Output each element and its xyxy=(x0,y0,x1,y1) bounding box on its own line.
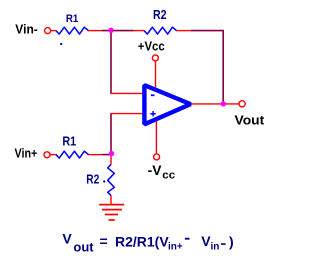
svg-text:+Vcc: +Vcc xyxy=(138,40,165,54)
wire op-amp output to Vout terminal xyxy=(190,103,239,105)
node A junction dot xyxy=(108,28,113,33)
wire inverting input stub xyxy=(110,92,143,94)
wire Vin- terminal to R1 xyxy=(51,30,57,32)
wire node B down to R2 vertical xyxy=(110,155,112,165)
wire node B up to non-inverting input xyxy=(110,114,112,154)
resistor R1 (bottom, Vin+ branch) xyxy=(56,151,88,158)
terminal Vout xyxy=(239,101,245,107)
svg-text:R1: R1 xyxy=(62,134,76,148)
terminal Vin+ xyxy=(44,152,50,158)
wire R2 right lead xyxy=(176,30,191,32)
svg-text:R2/R1(V: R2/R1(V xyxy=(115,233,169,249)
output node junction dot xyxy=(221,101,226,106)
svg-text:in+: in+ xyxy=(168,242,183,253)
wire op-amp bottom to -Vcc xyxy=(155,118,157,154)
grid dot 2 xyxy=(103,180,105,182)
svg-text:Vin+: Vin+ xyxy=(15,145,38,160)
resistor R2 (top feedback) xyxy=(144,27,176,34)
svg-text:V: V xyxy=(62,231,72,247)
svg-text:out: out xyxy=(73,240,94,255)
svg-text:): ) xyxy=(229,233,234,249)
wire node A horizontal (junction to R2) xyxy=(102,30,134,32)
resistor R1 (top, Vin- branch) xyxy=(56,27,88,34)
svg-text:Vout: Vout xyxy=(235,113,265,128)
formula Vout = R2/R1(Vin+ - Vin-) xyxy=(62,231,233,255)
svg-text:R2: R2 xyxy=(86,173,99,187)
wire R1 right lead xyxy=(88,30,102,32)
svg-text:Vin-: Vin- xyxy=(15,22,38,37)
wire R2 vertical bottom lead to ground xyxy=(110,195,112,205)
wire +Vcc to op-amp top xyxy=(155,61,157,90)
wire R2 to output node (top then down) xyxy=(191,31,224,104)
svg-text:R2: R2 xyxy=(153,8,167,22)
resistor R2 (vertical, to ground) xyxy=(108,165,115,196)
svg-text:cc: cc xyxy=(162,170,175,182)
grid dot 1 xyxy=(60,43,62,45)
wire R1 bottom right lead xyxy=(88,154,102,156)
wire Vin+ terminal to R1 bottom xyxy=(51,154,57,156)
wire R2 left lead xyxy=(134,30,145,32)
op-amp non-inverting input marker + xyxy=(150,113,156,115)
ground xyxy=(99,204,124,206)
wire to node B xyxy=(102,154,112,156)
wire non-inverting input stub xyxy=(110,113,143,115)
op-amp U1 triangle xyxy=(144,85,190,124)
terminal +Vcc xyxy=(152,55,158,61)
terminal Vin- xyxy=(45,28,51,34)
svg-text:=: = xyxy=(100,233,108,249)
svg-text:R1: R1 xyxy=(66,13,78,25)
svg-text:in: in xyxy=(211,242,220,253)
wire node A down to inverting input xyxy=(110,31,112,93)
terminal -Vcc xyxy=(154,154,160,160)
node B junction dot xyxy=(109,151,114,156)
op-amp inverting input marker - xyxy=(151,94,155,96)
svg-text:-V: -V xyxy=(148,162,162,178)
